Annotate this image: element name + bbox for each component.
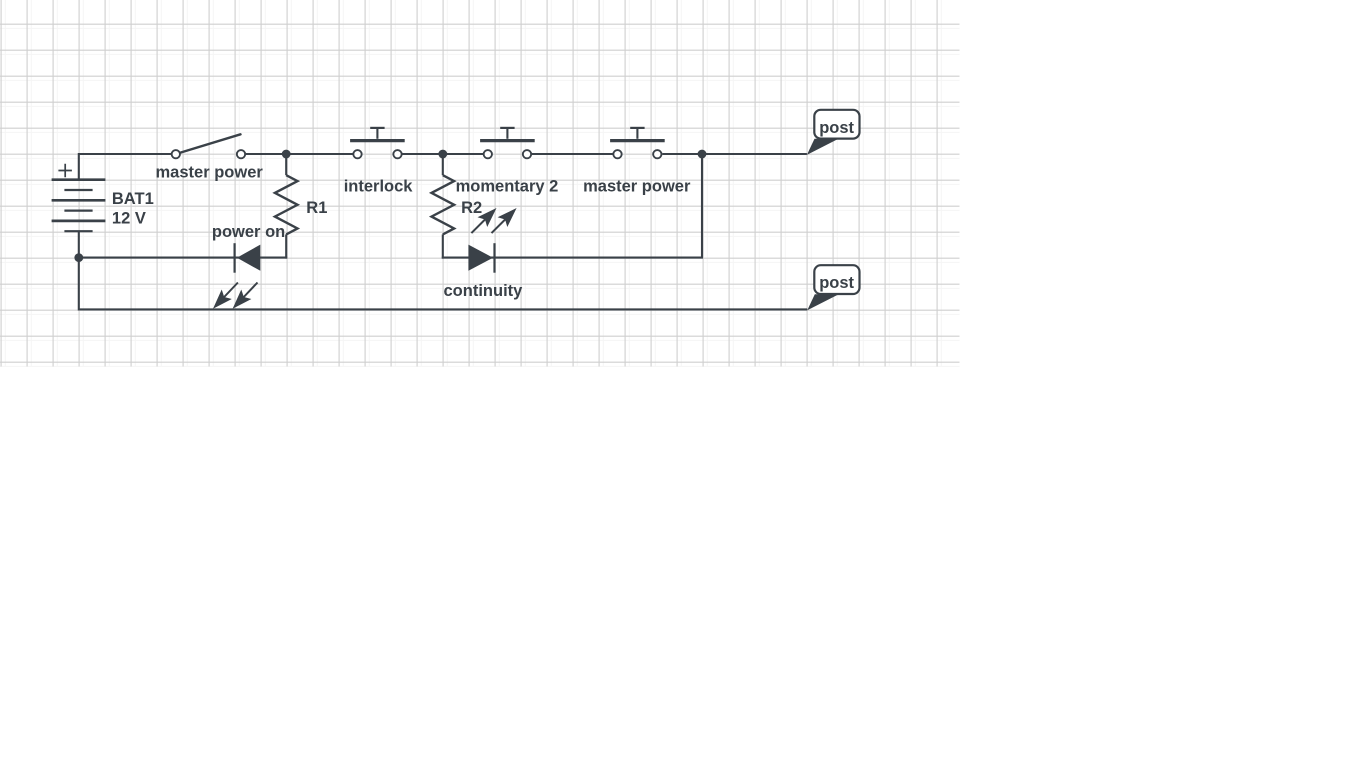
node junction at battery negative — [74, 253, 83, 262]
wire: node to R2 top — [442, 154, 444, 175]
LED power on: cathode bar — [234, 243, 236, 273]
wire: battery negative down, bottom rail to bottom post — [79, 231, 808, 309]
svg-text:R1: R1 — [306, 199, 327, 217]
node junction at R1 top — [282, 150, 291, 159]
wire: interlock right terminal to momentary 2 left terminal — [402, 153, 483, 155]
node junction at R2 top — [438, 150, 447, 159]
LED continuity: cathode bar — [493, 243, 495, 273]
wire: momentary 2 right terminal to master power button left terminal — [532, 153, 613, 155]
pushbutton interlock: left terminal circle — [353, 150, 361, 158]
pushbutton momentary 2: actuator bar — [480, 139, 535, 142]
svg-text:12 V: 12 V — [112, 210, 146, 228]
wire: R2 bottom to mid rail — [442, 234, 444, 258]
post flag bottom: tail — [807, 294, 839, 310]
pushbutton master power: top cap — [630, 127, 644, 129]
wire: R1 bottom to mid rail — [285, 234, 287, 258]
switch SW master power: lever — [180, 134, 240, 152]
LED power on: emission arrow 2 — [243, 283, 257, 298]
LED continuity: triangle — [468, 245, 493, 271]
pushbutton momentary 2: top cap — [500, 127, 514, 129]
svg-text:post: post — [819, 274, 854, 292]
svg-text:post: post — [819, 119, 854, 137]
post flag top: box — [814, 110, 859, 139]
svg-text:master power: master power — [156, 163, 264, 181]
pushbutton interlock: top cap — [370, 127, 384, 129]
wire: mid rail battery to R1 through power-on LED — [79, 257, 287, 259]
svg-text:interlock: interlock — [344, 177, 414, 195]
pushbutton master power: stem — [636, 128, 638, 139]
resistor R2 — [432, 175, 455, 234]
resistor R1 — [275, 175, 298, 234]
pushbutton master power: left terminal circle — [613, 150, 621, 158]
svg-text:BAT1: BAT1 — [112, 190, 154, 208]
svg-text:continuity: continuity — [444, 282, 524, 300]
pushbutton momentary 2: stem — [506, 128, 508, 139]
svg-text:R2: R2 — [461, 199, 482, 217]
pushbutton interlock: stem — [376, 128, 378, 139]
svg-text:power on: power on — [212, 223, 285, 241]
pushbutton momentary 2: right terminal circle — [523, 150, 531, 158]
svg-text:master power: master power — [583, 177, 691, 195]
wire: master power button right terminal to top post — [662, 153, 807, 155]
pushbutton master power: actuator bar — [610, 139, 665, 142]
wire: battery positive up and top rail to switch — [79, 154, 171, 180]
grid background of schematic canvas — [0, 0, 960, 367]
battery BAT1: plates — [52, 180, 106, 221]
wire: node to R1 top — [285, 154, 287, 175]
svg-text:momentary 2: momentary 2 — [456, 177, 559, 195]
LED power on: triangle — [237, 245, 260, 271]
LED continuity: emission arrow 1 — [471, 219, 485, 233]
pushbutton master power: right terminal circle — [653, 150, 661, 158]
node junction at right riser — [698, 150, 707, 159]
LED power on: emission arrow 1 — [224, 283, 238, 298]
wire: mid rail R2 through continuity LED to right riser — [442, 154, 702, 258]
switch SW master power: right terminal circle — [237, 150, 245, 158]
LED continuity: emission arrow 2 — [492, 219, 506, 233]
wire: switch right terminal to interlock left terminal — [246, 153, 353, 155]
pushbutton momentary 2: left terminal circle — [484, 150, 492, 158]
post flag bottom: box — [814, 265, 859, 294]
pushbutton interlock: right terminal circle — [393, 150, 401, 158]
switch SW master power: left terminal circle — [172, 150, 180, 158]
pushbutton interlock: actuator bar — [350, 139, 405, 142]
battery BAT1: plus sign — [58, 164, 72, 177]
post flag top: tail — [807, 139, 839, 155]
